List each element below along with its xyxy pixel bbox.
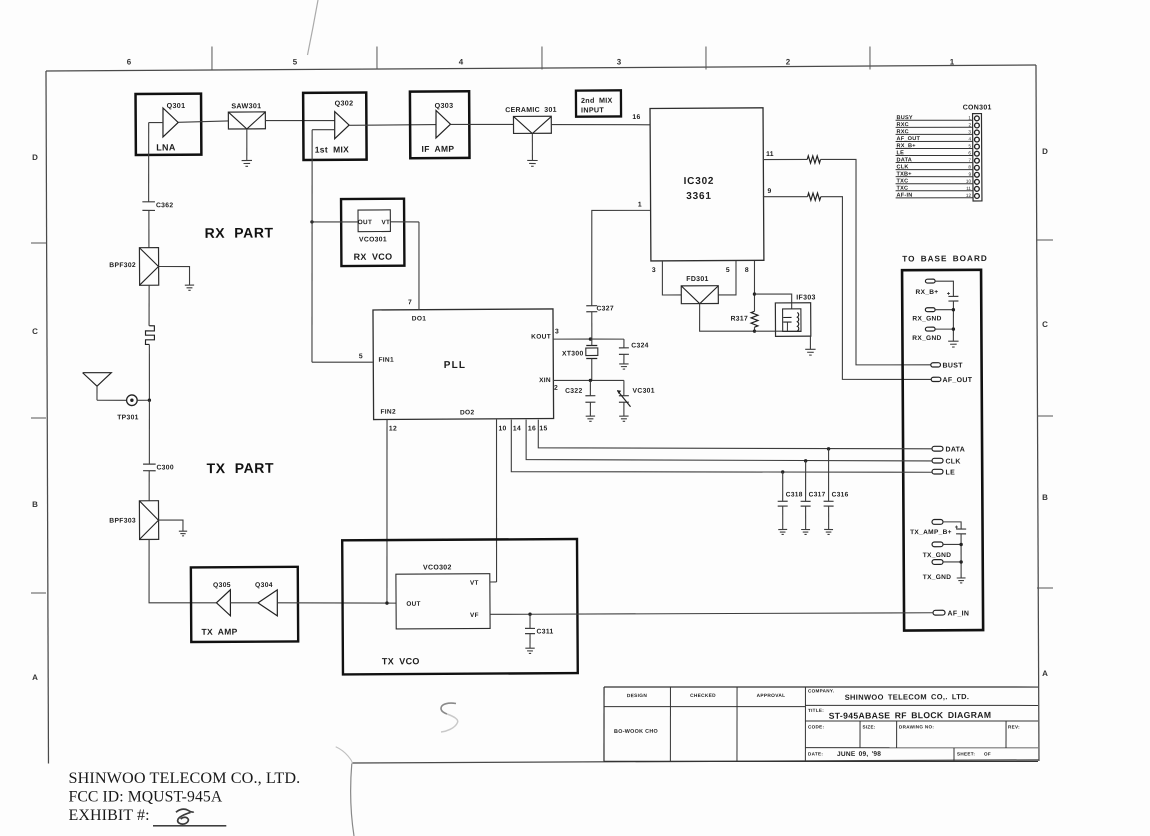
svg-text:4: 4 (968, 136, 971, 141)
svg-text:BO-WOOK CHO: BO-WOOK CHO (614, 729, 658, 735)
wire Q302 LO / FIN1 vertical (311, 130, 314, 363)
crystal XT300 (562, 339, 598, 381)
svg-text:+: + (955, 525, 959, 531)
svg-text:FIN2: FIN2 (380, 409, 396, 416)
svg-text:VC301: VC301 (633, 388, 655, 395)
CON301 pin 11 TXC (896, 185, 980, 192)
CON301 pin 10 TXC (896, 178, 980, 185)
ground under C322 (586, 415, 595, 417)
svg-text:AF_IN: AF_IN (948, 610, 970, 617)
resistor R317 (751, 311, 758, 327)
svg-text:OUT: OUT (406, 601, 420, 608)
node TP301 (148, 399, 151, 402)
svg-text:TITLE:: TITLE: (808, 708, 824, 713)
connector CON301 (963, 104, 993, 201)
svg-text:BUSY: BUSY (896, 115, 912, 121)
wire VT to pin 10 (490, 581, 497, 583)
capacitor (TX_AMP_B+ bypass) (955, 525, 967, 578)
title block (604, 685, 1039, 764)
svg-text:LE: LE (946, 470, 956, 477)
CON301 pin 6 LE (896, 150, 980, 157)
ground under C316 (824, 528, 833, 530)
wire RX VCO OUT to node (312, 221, 358, 224)
svg-text:APPROVAL: APPROVAL (757, 693, 786, 699)
wire R317 bottom (753, 327, 755, 331)
CON301 pin 8 CLK (896, 164, 980, 171)
svg-text:TX PART: TX PART (207, 460, 275, 476)
wire IC302 pin 5 to FD301 (718, 261, 736, 295)
svg-text:SIZE:: SIZE: (862, 724, 875, 729)
scan artifact: page edge vertical (351, 764, 354, 836)
node DATA tap (827, 447, 830, 450)
svg-text:1st MIX: 1st MIX (315, 144, 349, 154)
svg-text:2: 2 (554, 385, 558, 392)
filter SAW301 (228, 101, 265, 129)
svg-text:FD301: FD301 (686, 276, 709, 283)
wire IC302 pin 9 to resistor (763, 195, 808, 197)
svg-text:TXB+: TXB+ (896, 171, 912, 177)
svg-text:DESIGN: DESIGN (627, 693, 647, 699)
ground under IF303 (805, 348, 815, 350)
wire pin 15 to DATA (538, 417, 932, 451)
wire BPF303 to ground (158, 520, 183, 531)
mixer block Q302 1st MIX (303, 92, 366, 159)
terminal RX_GND (1) (912, 308, 955, 323)
svg-text:XIN: XIN (539, 377, 551, 384)
wire BPF303 to TX AMP (149, 539, 217, 603)
capacitor C322 (565, 380, 595, 416)
svg-text:3: 3 (617, 58, 622, 67)
svg-text:RX VCO: RX VCO (354, 252, 393, 262)
svg-text:RX_GND: RX_GND (912, 335, 941, 342)
antenna (83, 372, 127, 400)
ground under C317 (801, 528, 810, 530)
RX VCO block VCO301 (341, 199, 404, 266)
filter FD301 (681, 276, 718, 304)
svg-text:KOUT: KOUT (531, 334, 551, 341)
svg-text:IF AMP: IF AMP (422, 144, 455, 154)
svg-text:FIN1: FIN1 (378, 357, 394, 364)
amplifier block TX AMP Q305 Q304 (191, 567, 298, 642)
svg-text:DATA: DATA (897, 157, 913, 163)
node LE tap (781, 470, 784, 473)
ground (RX side) (948, 340, 958, 342)
svg-text:5: 5 (968, 144, 971, 149)
wire IC302 pin 8 down to R317 (753, 261, 756, 311)
wire Q302 out to Q303 (349, 124, 436, 127)
svg-text:CLK: CLK (896, 164, 908, 170)
svg-text:CERAMIC 301: CERAMIC 301 (505, 107, 557, 114)
svg-text:Q303: Q303 (435, 101, 454, 110)
node XIN/XT300 (589, 379, 592, 382)
svg-text:RX PART: RX PART (205, 224, 274, 240)
wire LNA out to SAW301 (178, 121, 228, 122)
svg-text:16: 16 (632, 114, 640, 121)
svg-text:C311: C311 (537, 628, 554, 635)
svg-text:1: 1 (638, 202, 642, 209)
svg-text:A: A (1042, 669, 1048, 678)
svg-text:R317: R317 (731, 316, 748, 323)
svg-text:IF303: IF303 (796, 294, 815, 301)
svg-text:TXC: TXC (897, 178, 909, 184)
svg-text:SHINWOO TELECOM CO., LTD.: SHINWOO TELECOM CO., LTD. (69, 769, 301, 787)
ground at BPF302 (185, 284, 194, 286)
svg-text:RX_GND: RX_GND (912, 315, 941, 322)
IC U-IC302 3361 (650, 108, 764, 261)
svg-text:3: 3 (968, 129, 971, 134)
svg-text:AF_OUT: AF_OUT (896, 136, 920, 142)
capacitor C300 (143, 464, 174, 472)
capacitor C324 (590, 339, 648, 364)
svg-text:DATE:: DATE: (808, 751, 823, 756)
svg-text:6: 6 (127, 57, 132, 66)
svg-text:C322: C322 (565, 388, 582, 395)
svg-text:COMPANY.: COMPANY. (808, 688, 834, 693)
svg-text:VT: VT (381, 219, 390, 226)
svg-text:Q304: Q304 (255, 582, 273, 589)
terminal AF_IN (933, 610, 969, 618)
terminal CLK (932, 458, 961, 465)
ground under CERAMIC 301 (527, 159, 537, 161)
svg-text:LE: LE (896, 150, 904, 156)
title block texts (614, 687, 1020, 759)
svg-text:8: 8 (745, 267, 749, 274)
svg-text:RX_B+: RX_B+ (915, 289, 938, 296)
wire BPF302 down (148, 285, 151, 326)
svg-text:Q301: Q301 (167, 101, 186, 110)
exhibit underline (153, 825, 226, 827)
wire XIN (pin 2) (553, 379, 624, 382)
svg-text:3361: 3361 (686, 191, 712, 202)
svg-text:9: 9 (767, 188, 771, 195)
band filter BPF303 (109, 501, 159, 540)
svg-text:TP301: TP301 (117, 414, 139, 421)
base board box (902, 270, 983, 631)
wire IC302 pin 3 to FD301 (662, 261, 681, 295)
capacitor C311 (525, 614, 554, 648)
svg-text:TXC: TXC (896, 186, 908, 192)
ground under VC301 (619, 415, 628, 417)
terminal LE (932, 469, 955, 476)
svg-text:RXC: RXC (897, 122, 909, 128)
resistor (pin 11 series) (807, 156, 820, 163)
svg-text:RXC: RXC (896, 129, 908, 135)
svg-text:DO1: DO1 (412, 315, 427, 322)
top zone numbers 6-1 (127, 53, 955, 72)
amplifier block Q301 LNA (136, 94, 202, 155)
ground at BPF303 (179, 530, 187, 532)
IC PLL (373, 309, 554, 420)
svg-text:10: 10 (966, 179, 972, 184)
wire inductor to TP301 node (148, 344, 151, 400)
wire pin 10 to TX VCO VT (496, 420, 498, 582)
capacitor C362 (142, 202, 173, 211)
svg-text:C316: C316 (832, 491, 849, 498)
svg-text:B: B (32, 500, 38, 509)
ground under C324 (619, 363, 628, 365)
wire resistor to BUST terminal (821, 159, 931, 366)
wire Q304 to TX VCO OUT (277, 602, 396, 604)
svg-text:VF: VF (470, 612, 479, 619)
svg-text:BPF302: BPF302 (109, 262, 136, 269)
handwritten exhibit number (176, 809, 194, 824)
terminal RX_B+ (915, 279, 953, 297)
node KOUT/XT300 (589, 337, 592, 340)
svg-text:CLK: CLK (945, 458, 960, 465)
svg-text:C: C (1042, 320, 1048, 329)
svg-text:5: 5 (293, 57, 298, 66)
svg-text:BPF303: BPF303 (109, 518, 136, 525)
CON301 pin 2 RXC (896, 122, 980, 129)
wire SAW301 to Q302 (265, 119, 334, 122)
wire SAW301 stem (246, 129, 248, 161)
svg-text:C300: C300 (156, 464, 173, 471)
svg-text:D: D (32, 153, 38, 162)
wire pin 12 to TX VCO OUT node (386, 420, 388, 604)
svg-text:TO BASE BOARD: TO BASE BOARD (902, 254, 988, 263)
terminal RX_GND (2) (912, 327, 955, 342)
svg-text:12: 12 (966, 193, 972, 198)
svg-text:FCC ID: MQUST-945A: FCC ID: MQUST-945A (69, 789, 223, 806)
trimmer capacitor VC301 (617, 380, 655, 416)
svg-text:VCO301: VCO301 (359, 236, 387, 243)
wire IC302 pin 1 to C327 (591, 210, 650, 306)
wire VF to AF_IN (490, 612, 933, 616)
left zone ticks (29, 243, 48, 593)
node C311 tap (528, 613, 531, 616)
wire pin 16 to CLK (526, 417, 932, 463)
svg-text:LNA: LNA (156, 142, 176, 152)
wire KOUT (pin 3) (553, 338, 590, 340)
junction node R317 bottom (753, 329, 756, 332)
svg-text:1: 1 (950, 58, 955, 67)
terminal TX_GND (2) (923, 559, 963, 581)
junction node pin8/IF303 top (753, 292, 756, 295)
wire LNA input down (147, 123, 150, 202)
terminal TX_AMP_B+ (910, 519, 961, 536)
capacitor C316 (823, 449, 849, 530)
capacitor C327 (586, 305, 614, 339)
scan artifact: top scratch (308, 0, 319, 55)
inductor (meander) (145, 326, 154, 345)
wire TP301 to node (137, 399, 149, 401)
svg-text:Q305: Q305 (213, 582, 231, 589)
svg-text:7: 7 (408, 299, 412, 306)
svg-text:EXHIBIT #:: EXHIBIT #: (69, 807, 150, 824)
terminal TX_GND (1) (923, 542, 963, 559)
scan artifact: page edge corner (336, 747, 352, 764)
wire pin 14 to LE (511, 417, 932, 475)
svg-text:PLL: PLL (444, 360, 467, 371)
svg-text:4: 4 (459, 57, 464, 66)
svg-text:VT: VT (470, 580, 479, 587)
top zone ticks (212, 43, 870, 74)
svg-text:C317: C317 (809, 491, 826, 498)
CON301 pin 12 AF-IN (896, 192, 980, 199)
filter CERAMIC 301 (505, 107, 557, 134)
svg-text:ST-945ABASE RF BLOCK DIAGRAM: ST-945ABASE RF BLOCK DIAGRAM (829, 710, 992, 721)
svg-text:DRAWING NO:: DRAWING NO: (899, 724, 934, 729)
wire node to IF303 (754, 294, 791, 309)
wire RX VCO VT to PLL pin 7 (390, 221, 419, 223)
wire C362 to BPF302 (148, 210, 150, 247)
capacitor (RX_B+ bypass) (947, 291, 959, 341)
test point TP301 (127, 395, 138, 406)
wire IF303 to ground (809, 336, 811, 349)
svg-text:REV:: REV: (1008, 724, 1020, 729)
svg-text:JUNE 09, '98: JUNE 09, '98 (837, 751, 881, 758)
svg-text:15: 15 (539, 425, 547, 432)
svg-text:C324: C324 (631, 342, 648, 349)
wire BPF302 to ground (159, 266, 190, 285)
wire resistor to AF_OUT terminal (821, 196, 931, 380)
ground under C318 (778, 528, 787, 530)
svg-text:11: 11 (966, 186, 971, 191)
svg-text:OUT: OUT (358, 219, 372, 226)
svg-text:14: 14 (513, 425, 521, 432)
CON301 pin 3 RXC (896, 129, 980, 136)
svg-text:11: 11 (766, 151, 774, 158)
svg-text:+: + (947, 292, 951, 298)
CON301 pin 7 DATA (896, 157, 980, 164)
TX VCO block (342, 539, 578, 674)
border frame (44, 65, 1039, 767)
svg-text:IC302: IC302 (684, 176, 715, 187)
node RX VCO / Q302 / FIN1 (310, 220, 313, 223)
right zone ticks (1035, 240, 1055, 588)
terminal AF_OUT (931, 377, 973, 384)
svg-text:SHEET:: SHEET: (957, 751, 975, 756)
left zone letters D C B A (29, 153, 41, 682)
svg-text:CHECKED: CHECKED (690, 693, 716, 699)
amplifier block Q303 IF AMP (410, 91, 470, 158)
svg-text:CON301: CON301 (963, 104, 992, 111)
svg-text:A: A (32, 673, 38, 682)
svg-text:3: 3 (652, 267, 656, 274)
svg-text:DATA: DATA (945, 446, 965, 453)
terminal DATA (932, 446, 965, 453)
svg-text:INPUT: INPUT (581, 105, 604, 114)
ground under C311 (525, 647, 534, 649)
wire CERAMIC 301 stem (531, 134, 533, 161)
svg-text:AF_OUT: AF_OUT (942, 377, 972, 384)
svg-text:TX_GND: TX_GND (923, 574, 952, 581)
wire FD301 stem to R317 bottom node (699, 303, 754, 331)
svg-text:5: 5 (726, 267, 730, 274)
svg-text:2nd MIX: 2nd MIX (581, 96, 613, 105)
wire IC302 pin 11 to resistor (763, 158, 807, 160)
svg-text:VCO302: VCO302 (423, 564, 452, 571)
resistor (pin 9 series) (808, 193, 821, 200)
wire CERAMIC 301 to IC302 pin 16 (551, 124, 650, 125)
CON301 pin 1 BUSY (896, 115, 980, 122)
svg-text:TX AMP: TX AMP (201, 627, 237, 637)
terminal BUST (931, 362, 963, 369)
svg-text:C327: C327 (596, 305, 613, 312)
svg-text:TX_GND: TX_GND (923, 552, 952, 559)
svg-text:TX_AMP_B+: TX_AMP_B+ (910, 529, 952, 536)
svg-text:SHINWOO TELECOM CO,. LTD.: SHINWOO TELECOM CO,. LTD. (845, 692, 970, 702)
node TX VCO OUT / pin 12 (385, 601, 388, 604)
node CLK tap (804, 459, 807, 462)
IF transformer IF303 (775, 294, 816, 336)
svg-text:TX VCO: TX VCO (382, 656, 420, 666)
capacitor C318 (778, 472, 803, 530)
svg-text:XT300: XT300 (562, 350, 584, 357)
svg-text:SAW301: SAW301 (231, 101, 261, 110)
svg-text:DO2: DO2 (460, 409, 475, 416)
svg-text:D: D (1042, 147, 1048, 156)
wire DO1 (pin 7) to RX VCO VT (418, 222, 419, 310)
svg-text:C318: C318 (786, 491, 803, 498)
svg-text:CODE:: CODE: (808, 724, 825, 729)
label box 2nd MIX INPUT (576, 90, 621, 116)
band filter BPF302 (109, 248, 159, 286)
wire FIN1 (pin 5) to RX VCO node (312, 361, 373, 364)
wire bottom node to IF303 (755, 330, 801, 333)
CON301 pin 5 RX_B+ (896, 143, 980, 150)
wire C300 to BPF303 (148, 471, 150, 501)
svg-text:16: 16 (528, 425, 536, 432)
svg-text:12: 12 (389, 425, 397, 432)
capacitor C317 (800, 461, 825, 530)
svg-text:3: 3 (555, 328, 559, 335)
FCC exhibit stamp text (69, 769, 301, 824)
handwritten mark (page center) (441, 703, 456, 714)
svg-text:B: B (1042, 493, 1048, 502)
svg-text:OF: OF (984, 752, 991, 757)
ground (TX side) (957, 577, 966, 579)
CON301 pin 4 AF_OUT (896, 136, 980, 143)
ground under SAW301 (242, 159, 252, 161)
wire Q303 out to CERAMIC 301 (451, 123, 514, 126)
svg-text:Q302: Q302 (335, 98, 354, 107)
right zone letters D C B A (1039, 147, 1051, 678)
svg-text:AF-IN: AF-IN (897, 193, 913, 199)
svg-text:C: C (32, 327, 38, 336)
svg-text:RX_B+: RX_B+ (897, 143, 917, 149)
svg-text:BUST: BUST (942, 362, 963, 369)
svg-text:2: 2 (786, 57, 791, 66)
svg-text:10: 10 (498, 425, 506, 432)
CON301 pin 9 TXB+ (896, 171, 980, 178)
wire node down to C300 (148, 400, 151, 464)
svg-text:5: 5 (359, 353, 363, 360)
svg-text:C362: C362 (156, 202, 173, 209)
